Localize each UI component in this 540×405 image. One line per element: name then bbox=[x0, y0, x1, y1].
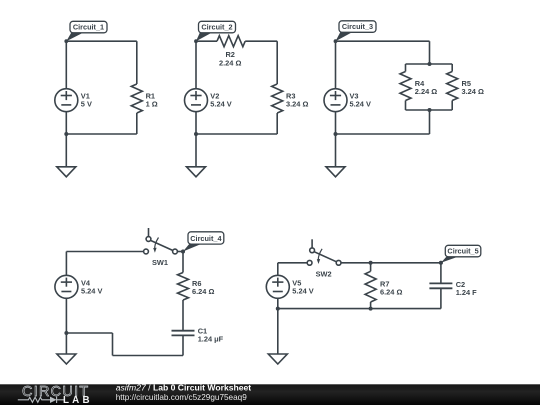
svg-text:Circuit_4: Circuit_4 bbox=[190, 234, 222, 243]
svg-text:asifm27 / Lab 0 Circuit Worksh: asifm27 / Lab 0 Circuit Worksheet bbox=[116, 382, 252, 392]
svg-text:Circuit_5: Circuit_5 bbox=[447, 247, 478, 256]
svg-text:5.24 V: 5.24 V bbox=[81, 287, 102, 296]
svg-text:http://circuitlab.com/c5z29gu7: http://circuitlab.com/c5z29gu75eaq9 bbox=[116, 393, 248, 402]
svg-text:2.24 Ω: 2.24 Ω bbox=[415, 87, 437, 96]
svg-text:1 Ω: 1 Ω bbox=[146, 99, 158, 108]
svg-text:5.24 V: 5.24 V bbox=[350, 99, 371, 108]
svg-text:SW1: SW1 bbox=[152, 258, 168, 267]
svg-text:2.24 Ω: 2.24 Ω bbox=[219, 59, 241, 68]
svg-text:Circuit_3: Circuit_3 bbox=[342, 22, 373, 31]
svg-text:LAB: LAB bbox=[63, 395, 93, 405]
svg-text:Circuit_2: Circuit_2 bbox=[201, 23, 232, 32]
svg-text:6.24 Ω: 6.24 Ω bbox=[380, 287, 402, 296]
svg-text:Circuit_1: Circuit_1 bbox=[73, 23, 104, 32]
svg-text:SW2: SW2 bbox=[316, 270, 332, 279]
svg-text:6.24 Ω: 6.24 Ω bbox=[192, 287, 214, 296]
svg-text:3.24 Ω: 3.24 Ω bbox=[286, 99, 308, 108]
svg-text:3.24 Ω: 3.24 Ω bbox=[462, 87, 484, 96]
svg-text:5.24 V: 5.24 V bbox=[210, 99, 231, 108]
svg-text:5 V: 5 V bbox=[81, 99, 92, 108]
svg-text:1.24 μF: 1.24 μF bbox=[198, 335, 224, 344]
svg-text:5.24 V: 5.24 V bbox=[292, 287, 313, 296]
svg-text:1.24 F: 1.24 F bbox=[456, 288, 477, 297]
